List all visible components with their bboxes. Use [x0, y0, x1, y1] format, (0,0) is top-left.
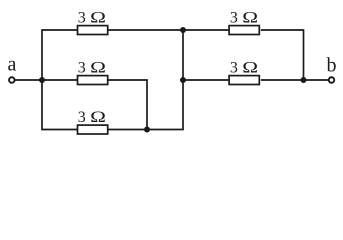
wire node C vertical [182, 30, 184, 80]
wire terminal a to node A [15, 79, 42, 81]
wire node A up and to resistor R1 [42, 30, 77, 80]
wire node B up to node C [147, 80, 183, 130]
svg-text:Ω: Ω [90, 109, 106, 126]
junction node B [144, 127, 150, 133]
wire resistor R4 down to node D [261, 30, 304, 80]
resistor R2 (middle left) body [78, 76, 108, 85]
svg-text:3: 3 [230, 9, 238, 26]
svg-text:3: 3 [78, 9, 86, 26]
svg-text:Ω: Ω [90, 59, 106, 76]
svg-text:a: a [8, 54, 17, 76]
wire node A to resistor R2 [42, 79, 77, 81]
svg-text:3: 3 [78, 59, 86, 76]
wire resistor R5 to terminal b [261, 79, 328, 81]
wire resistor R2 down to node B [108, 80, 147, 130]
resistor R5 (middle right) body [229, 76, 259, 85]
svg-text:Ω: Ω [242, 59, 258, 76]
terminal a circle [9, 77, 15, 83]
svg-text:Ω: Ω [90, 9, 106, 26]
resistor R1 (top left) body [78, 26, 108, 35]
terminal b circle [329, 77, 335, 83]
junction node C top [180, 27, 186, 33]
junction node A [39, 77, 45, 83]
wire node A down and to resistor R3 [42, 80, 77, 130]
svg-text:3: 3 [78, 109, 86, 126]
junction node D [301, 77, 307, 83]
wire resistor R3 to node B [108, 129, 147, 131]
wire resistor R1 to node C (top) [108, 29, 184, 31]
svg-text:Ω: Ω [242, 9, 258, 26]
junction node C middle [180, 77, 186, 83]
svg-text:b: b [327, 55, 337, 77]
svg-text:3: 3 [230, 59, 238, 76]
resistor R3 (bottom left) body [78, 125, 108, 134]
wire node C to resistor R4 [183, 29, 229, 31]
wire node C to resistor R5 [183, 79, 229, 81]
resistor R4 (top right) body [229, 26, 259, 35]
